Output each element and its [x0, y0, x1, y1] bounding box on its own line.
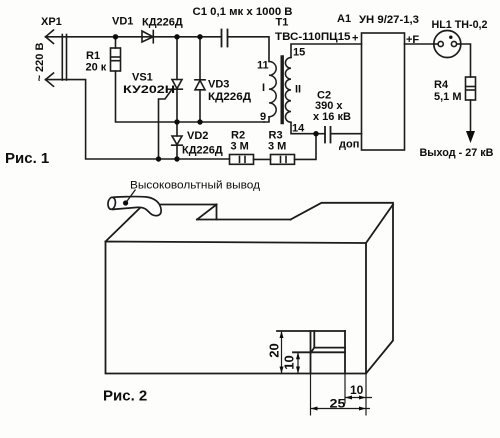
svg-text:15: 15 [293, 47, 305, 59]
svg-text:I: I [262, 82, 265, 94]
svg-text:Высоковольтный вывод: Высоковольтный вывод [130, 180, 261, 192]
svg-text:Рис. 1: Рис. 1 [5, 150, 49, 167]
svg-text:Т1: Т1 [276, 17, 289, 29]
svg-text:14: 14 [292, 123, 305, 135]
svg-text:доп: доп [339, 139, 359, 151]
svg-text:R1: R1 [86, 50, 100, 62]
svg-text:ТВС-110ПЦ15: ТВС-110ПЦ15 [275, 31, 351, 43]
svg-text:ХР1: ХР1 [41, 16, 62, 28]
svg-text:Выход - 27 кВ: Выход - 27 кВ [420, 147, 494, 159]
svg-text:+F: +F [406, 34, 419, 46]
svg-text:~ 220 В: ~ 220 В [34, 43, 46, 82]
svg-text:20: 20 [266, 343, 281, 357]
svg-text:КУ202Н: КУ202Н [123, 84, 175, 96]
svg-text:КД226Д: КД226Д [182, 145, 223, 157]
svg-text:А1: А1 [337, 13, 351, 25]
svg-text:10: 10 [350, 383, 364, 397]
svg-text:II: II [295, 84, 301, 96]
svg-text:20 к: 20 к [86, 62, 107, 74]
svg-text:3 М: 3 М [268, 141, 286, 153]
svg-text:3 М: 3 М [231, 141, 249, 153]
svg-text:5,1 М: 5,1 М [434, 91, 462, 103]
svg-text:R4: R4 [434, 79, 449, 91]
svg-text:х 16 кВ: х 16 кВ [313, 111, 351, 123]
svg-text:Рис. 2: Рис. 2 [103, 388, 147, 405]
svg-text:HL1 ТН-0,2: HL1 ТН-0,2 [432, 19, 488, 31]
svg-text:10: 10 [281, 355, 296, 369]
svg-text:VD2: VD2 [187, 130, 208, 142]
svg-text:VS1: VS1 [132, 72, 153, 84]
svg-text:КД226Д: КД226Д [142, 17, 183, 29]
svg-text:+: + [352, 33, 358, 45]
svg-text:9: 9 [260, 111, 266, 123]
svg-text:VD1: VD1 [112, 16, 133, 28]
svg-text:25: 25 [330, 397, 346, 411]
svg-text:УН 9/27-1,3: УН 9/27-1,3 [359, 14, 419, 26]
svg-text:VD3: VD3 [208, 79, 229, 91]
svg-text:КД226Д: КД226Д [208, 91, 251, 103]
svg-text:11: 11 [257, 60, 269, 72]
